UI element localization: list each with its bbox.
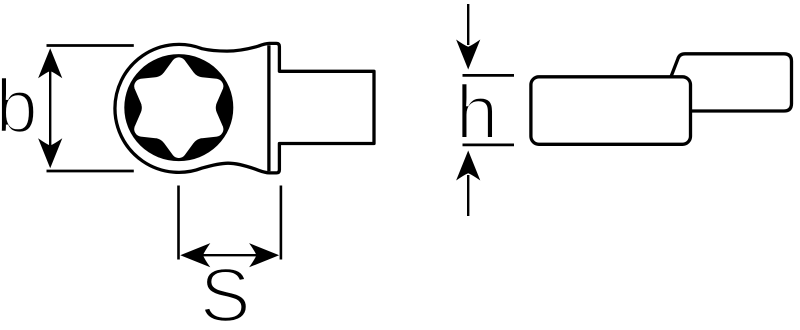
dimension b: top extension line (47, 44, 134, 47)
dimension S: left extension line (177, 186, 180, 260)
dimension h: upper arrowhead (down) (456, 40, 480, 70)
dimension h: lower tick (463, 143, 515, 146)
dimension h: upper tick (463, 74, 515, 77)
ring insert tool front view silhouette (115, 43, 374, 173)
svg-text:S: S (200, 254, 251, 330)
dimension b: upper arrowhead (38, 48, 62, 78)
TORX opening: black disc (124, 54, 233, 161)
dimension h: upper leader line (467, 4, 469, 45)
collar plate edge (267, 45, 270, 171)
dimension h: lower arrowhead (up) (456, 151, 480, 181)
svg-text:h: h (456, 70, 499, 155)
side view: ring plate (back rectangle) (671, 54, 792, 111)
dimension b: bottom extension line (47, 170, 134, 173)
svg-text:b: b (0, 64, 38, 149)
dimension S: arrow shaft (184, 254, 276, 256)
dimension b: arrow shaft (49, 52, 51, 165)
dimension h: lower leader line (467, 175, 469, 216)
dimension S: right arrowhead (249, 243, 279, 267)
dimension S: right extension line (280, 186, 283, 260)
side view: tang (front rectangle) (531, 77, 691, 145)
dimension b: lower arrowhead (38, 138, 62, 168)
dimension S: left arrowhead (180, 243, 210, 267)
TORX star (white) (134, 57, 223, 158)
